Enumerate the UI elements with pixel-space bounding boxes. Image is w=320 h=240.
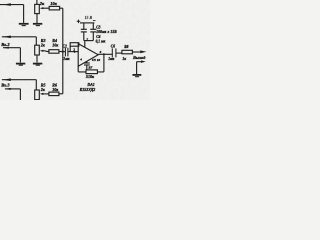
svg-text:Вх.3: Вх.3 — [0, 82, 10, 87]
wire feedback bottom — [78, 71, 104, 73]
svg-text:1мк: 1мк — [108, 57, 114, 61]
wire pot R1 top stub — [36, 0, 38, 4]
capacitor C5 stub — [86, 61, 88, 62]
wire input2 drop to pot — [35, 37, 37, 45]
resistor R5 potentiometer — [35, 90, 40, 100]
svg-text:R7: R7 — [88, 65, 92, 69]
ground G4 — [16, 63, 25, 65]
input 3 terminal arrow — [3, 78, 11, 81]
wire R6 to bus — [59, 93, 63, 95]
svg-text:2: 2 — [72, 47, 75, 51]
svg-text:1мк: 1мк — [63, 57, 69, 61]
wire wiper R3 to R4 — [45, 50, 49, 53]
wire bypass merge — [84, 40, 94, 42]
wire input3 shield drop — [19, 89, 21, 100]
power rail +15V — [80, 22, 95, 24]
svg-text:10к: 10к — [50, 1, 57, 6]
svg-text:Вх.2: Вх.2 — [0, 42, 10, 47]
svg-text:2к: 2к — [39, 1, 45, 6]
wire R8 to output — [132, 51, 140, 53]
svg-text:R8: R8 — [124, 45, 128, 49]
svg-text:C3: C3 — [96, 26, 100, 30]
wiper arrow R1 — [43, 7, 45, 9]
svg-text:C4: C4 — [96, 35, 100, 39]
svg-text:4: 4 — [79, 58, 82, 62]
op-amp U1 triangle — [78, 44, 98, 67]
wire bus to C1 — [63, 51, 65, 53]
input 3 shield arrow — [5, 88, 11, 90]
wire summing bus vertical — [62, 8, 64, 94]
ground G1 — [19, 23, 29, 25]
svg-text:510к: 510к — [86, 74, 95, 79]
wire input2 signal line — [2, 36, 37, 38]
resistor feedback top box — [70, 43, 79, 47]
junction output node — [103, 53, 105, 55]
resistor R6 — [49, 92, 59, 96]
resistor R7 — [86, 70, 97, 74]
resistor R4 — [49, 50, 59, 54]
resistor R3 potentiometer — [35, 45, 40, 55]
svg-text:15 В: 15 В — [85, 16, 93, 20]
resistor R1 potentiometer — [35, 4, 40, 13]
wire R4 to bus — [59, 51, 63, 53]
input 2 terminal arrow — [3, 36, 11, 39]
input 2 shield arrow — [3, 47, 9, 49]
resistor R2 — [49, 6, 59, 9]
wire R1 wiper to R2 — [45, 7, 49, 9]
ground G3 — [33, 63, 42, 65]
wire input2 shield line — [3, 47, 20, 49]
capacitor C6 — [111, 48, 113, 57]
wire input3 drop to pot — [35, 80, 37, 90]
svg-text:C1: C1 — [63, 45, 68, 49]
svg-text:DA1: DA1 — [86, 83, 94, 87]
wire pot R1 bottom — [36, 14, 38, 23]
capacitor C1 — [64, 48, 66, 57]
svg-text:C6: C6 — [111, 44, 115, 48]
svg-text:10к: 10к — [52, 42, 59, 47]
svg-text:0,1 мк: 0,1 мк — [96, 40, 106, 44]
junction inverting input — [74, 51, 76, 53]
capacitor C4 column — [92, 23, 94, 29]
resistor R8 — [122, 50, 132, 54]
wire R2 to bus — [60, 7, 63, 9]
output shield arrow — [141, 60, 146, 63]
capacitor C5 — [84, 62, 90, 64]
svg-text:Выход: Выход — [132, 55, 146, 60]
input 1 terminal arrow — [3, 3, 11, 6]
capacitor C3 column — [83, 23, 85, 29]
svg-text:C5 10: C5 10 — [92, 58, 100, 62]
wire input1 shield drop — [23, 5, 25, 23]
svg-text:1к: 1к — [122, 57, 126, 61]
wire pin7 stub — [84, 41, 86, 48]
wire output shield — [137, 61, 142, 63]
ground G5 — [133, 74, 142, 76]
wire input3 signal line — [2, 79, 37, 81]
wire output shield drop — [136, 62, 138, 74]
wire feedback left leg — [77, 66, 79, 72]
wire input2 shield drop — [19, 48, 21, 63]
wire C1 to op-amp input — [68, 51, 78, 53]
wire feedback right leg — [103, 54, 105, 72]
svg-text:10к: 10к — [52, 87, 59, 92]
wire pot R3 bottom — [36, 55, 38, 62]
wiper arrow R3 — [43, 50, 45, 52]
wire feedback box to summing node — [69, 46, 71, 52]
svg-text:100мк x 15В: 100мк x 15В — [96, 30, 117, 34]
output terminal arrow — [140, 50, 146, 53]
wire input3 shield line — [5, 88, 21, 90]
ground G2 — [33, 23, 42, 25]
power minus mark — [93, 20, 96, 22]
wire wiper R5 to R6 — [45, 93, 49, 95]
svg-text:К153УД2: К153УД2 — [79, 88, 96, 92]
power plus mark — [77, 20, 81, 24]
wire input1 shield line — [0, 4, 24, 6]
junction summing node — [62, 50, 64, 52]
wiper arrow R5 — [43, 93, 45, 95]
wire C6 to R8 — [116, 52, 122, 54]
wire op-amp output — [98, 53, 112, 55]
